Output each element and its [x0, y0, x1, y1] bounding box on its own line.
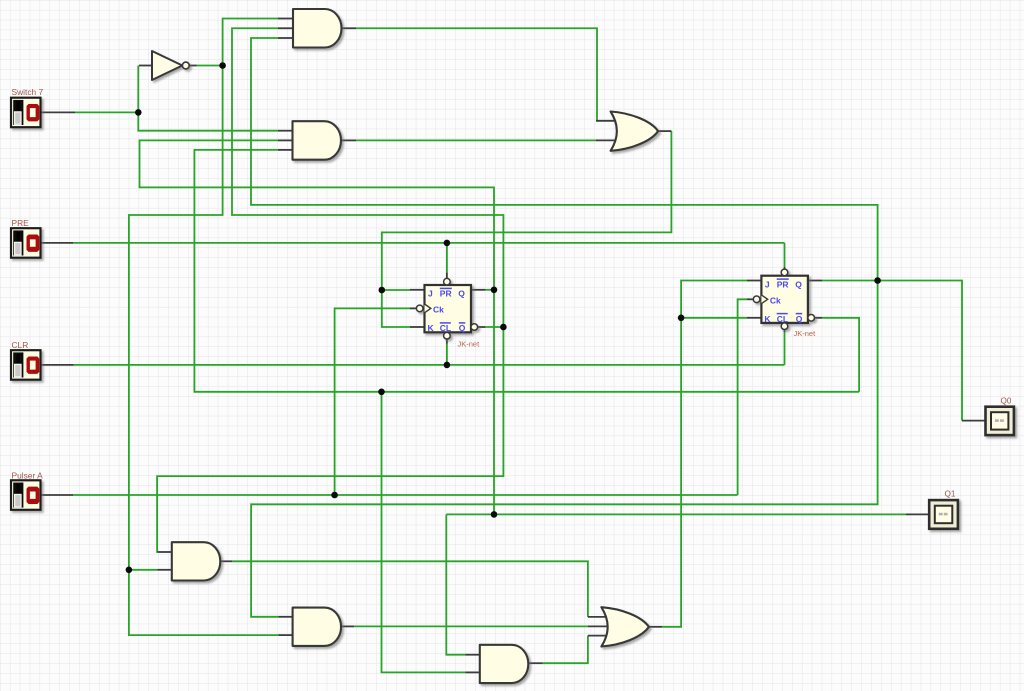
- pin JK1 PR: [446, 273, 448, 279]
- junction Qbar2 bus: [378, 389, 385, 396]
- wire JK2 Q to junction: [822, 280, 878, 282]
- pin PRE out: [41, 242, 74, 244]
- pin JK2 Qbar: [814, 317, 822, 319]
- pin OR2 input3: [588, 635, 608, 637]
- U2 PR overline: [777, 278, 789, 280]
- svg-text:K: K: [764, 314, 771, 324]
- wire JK2 Qbar right and down: [822, 318, 859, 392]
- switch CLR: [11, 350, 41, 380]
- wire OR1 output down and left: [382, 131, 672, 290]
- wire JK2 Qbar bus left: [194, 150, 859, 392]
- pin OR2 output: [649, 626, 662, 628]
- pin Q1 probe: [906, 513, 930, 515]
- U1 Ck bubble: [416, 305, 423, 312]
- pin OR1 input1: [596, 120, 617, 122]
- wire AND3 output to OR2 input1: [232, 561, 588, 617]
- svg-text:JK-net: JK-net: [458, 340, 481, 349]
- pin Q0 probe: [962, 420, 986, 422]
- wire JK2 Q down and left to AND4 input1: [251, 281, 878, 617]
- U2 Qbar overline: [796, 313, 803, 315]
- pulser PulserA: [11, 480, 41, 510]
- pin AND2 input1: [278, 130, 294, 132]
- pin AND3 input1: [157, 551, 172, 553]
- and-gate AND2: [293, 121, 341, 160]
- svg-text:J: J: [428, 289, 433, 299]
- and-gate AND5: [480, 645, 529, 683]
- wire OR2 net to JK2 K: [681, 317, 747, 319]
- inverter gate NOT1: [152, 51, 189, 80]
- U2 Qbar bubble: [808, 315, 815, 322]
- switch PRE: [11, 228, 41, 258]
- pin AND4 input2: [278, 634, 293, 636]
- pin JK1 J: [410, 289, 425, 291]
- and-gate AND1: [293, 9, 342, 48]
- or-gate OR2: [601, 607, 649, 646]
- wire junction up to NOT input: [137, 66, 139, 113]
- junction NOT net at AND3: [126, 567, 133, 574]
- svg-text:Q1: Q1: [945, 490, 956, 499]
- pin OR2 input1: [588, 616, 608, 618]
- wire Pulser bus: [73, 494, 738, 496]
- wire AND4 output to OR2 input2: [354, 625, 588, 627]
- and-gate AND4: [293, 608, 341, 646]
- wire JK1 Qbar up and left to AND1 input2: [232, 28, 503, 327]
- pin JK2 Q: [807, 280, 822, 282]
- svg-text:Ck: Ck: [770, 295, 781, 305]
- svg-text:J: J: [765, 279, 770, 289]
- pin AND2 output: [341, 139, 357, 141]
- pin JK2 K: [747, 317, 761, 319]
- junction JK2 Q: [874, 277, 881, 284]
- wire JK1 Q up and left to AND2 input2: [140, 140, 495, 289]
- junction switch7 net: [135, 109, 142, 116]
- svg-text:Q0: Q0: [1001, 397, 1012, 406]
- U2 clock triangle: [761, 295, 767, 304]
- pin JK1 CL: [446, 339, 448, 344]
- wire NOT net down to AND4 input2: [129, 570, 279, 635]
- U2 Ck bubble: [753, 296, 760, 303]
- svg-text:Q: Q: [458, 289, 465, 299]
- wire OR1 net down to JK1 K: [382, 290, 410, 327]
- pin AND1 input2: [278, 27, 294, 29]
- wire JK2 Q up and left to AND1 input3: [251, 38, 878, 281]
- pin AND5 output: [528, 662, 542, 664]
- junction OR1 net at JK1 J: [379, 287, 386, 294]
- svg-text:CL: CL: [440, 323, 451, 333]
- probe Q1 body: [929, 500, 958, 529]
- U1 CL overline: [440, 322, 451, 324]
- pin OR1 output: [658, 130, 671, 132]
- svg-text:K: K: [428, 323, 435, 333]
- wire JK1 Qbar down to AND3 input1: [157, 327, 503, 552]
- wire PRE bus: [73, 242, 785, 244]
- wire OR1 net to JK1 J: [382, 289, 410, 291]
- svg-text:CL: CL: [777, 314, 788, 324]
- junction PRE at JK1: [444, 240, 451, 247]
- wire AND2 output to OR1 input2: [356, 139, 596, 141]
- wire PRE drop to JK2 PR: [784, 243, 786, 267]
- svg-text:PR: PR: [440, 289, 452, 299]
- U1 clock triangle: [425, 304, 431, 313]
- pin AND1 output: [341, 27, 356, 29]
- pin OR1 input2: [596, 139, 617, 141]
- wire junction down to AND2 input1: [138, 112, 277, 130]
- pin AND5 input1: [466, 654, 481, 656]
- wire JK1 Qbar to junction: [485, 326, 503, 328]
- probe Q0 body: [986, 407, 1014, 435]
- wire JK1 Q to junction: [485, 289, 494, 291]
- pin JK2 CL: [784, 329, 786, 332]
- switch SW7 (Switch 7): [11, 98, 41, 128]
- junction OR2 net at JK2 K: [678, 315, 685, 322]
- wire Switch7 to junction: [75, 111, 138, 113]
- and-gate AND3: [172, 542, 221, 580]
- wire Pulser up to JK2 Ck: [738, 299, 747, 495]
- pin JK1 Ck: [410, 307, 417, 309]
- pin AND2 input3: [278, 149, 294, 151]
- pin CLR out: [41, 364, 74, 366]
- jk-flipflop U1 body: [416, 278, 477, 339]
- svg-text:Q: Q: [459, 323, 466, 333]
- pin JK2 Ck: [747, 298, 754, 300]
- U1 Qbar overline: [459, 322, 466, 324]
- pin NOT input: [139, 65, 153, 67]
- pin JK1 Qbar: [477, 326, 485, 328]
- wire node A down then left at y215: [129, 66, 223, 570]
- junction Pulser at JK1 Ck: [331, 492, 338, 499]
- or-gate OR1: [611, 112, 659, 151]
- wire node A up to AND1 input1: [223, 19, 278, 66]
- pin Pulser out: [41, 494, 73, 496]
- pin Switch7 out: [41, 111, 76, 113]
- wire CLR bus: [74, 364, 785, 366]
- svg-text:Q: Q: [795, 279, 802, 289]
- wire Q1 line down to AND5 input1: [446, 514, 465, 654]
- junction JK1 Q: [491, 287, 498, 294]
- junction JK1 Qbar: [500, 324, 507, 331]
- pin AND3 input2: [157, 569, 172, 571]
- wire Pulser up to JK1 Ck: [335, 308, 410, 495]
- pin AND4 input1: [278, 616, 293, 618]
- wire NOT output to node A: [196, 65, 223, 67]
- svg-text:JK-net: JK-net: [794, 329, 817, 338]
- wire PRE drop to JK1 PR: [446, 243, 448, 273]
- pin AND4 output: [341, 625, 354, 627]
- pin JK2 J: [747, 280, 761, 282]
- wire JK2 Q right to Q0 drop: [878, 281, 962, 421]
- wire JK1 Q down to Q1 line: [493, 290, 495, 515]
- wire AND1 output to OR1 input1: [356, 28, 597, 121]
- svg-text:Ck: Ck: [433, 305, 444, 315]
- pin JK2 PR: [784, 267, 786, 269]
- pin OR2 input2: [588, 625, 608, 627]
- wire JK2 CL to CLR bus: [784, 332, 786, 365]
- U1 Qbar bubble: [471, 324, 478, 331]
- pin AND5 input2: [466, 671, 481, 673]
- junction Q1 line: [491, 511, 498, 518]
- junction CLR at JK1: [444, 362, 451, 369]
- wire JK2 Qbar branch down to AND5 input2: [382, 392, 466, 673]
- pin AND2 input2: [278, 139, 294, 141]
- U1 PR overline: [440, 287, 452, 289]
- svg-text:PRE: PRE: [12, 218, 30, 228]
- pin AND1 input3: [278, 37, 294, 39]
- svg-text:Switch 7: Switch 7: [12, 87, 44, 97]
- U1 PR bubble: [444, 278, 451, 285]
- pin JK1 Q: [471, 289, 486, 291]
- pin NOT output: [189, 65, 197, 67]
- wire JK1 CL to CLR bus: [446, 344, 448, 365]
- pin AND3 output: [219, 560, 232, 562]
- junction NOT output node A: [219, 62, 226, 69]
- jk-flipflop U2 body: [753, 269, 814, 329]
- U1 pin text J: [428, 279, 803, 333]
- svg-text:Pulser A: Pulser A: [12, 470, 44, 480]
- wire OR2 output up to JK2 J: [662, 281, 747, 627]
- wire AND5 output to OR2 input3: [543, 636, 588, 664]
- wire Q1 line to probe: [446, 513, 905, 515]
- U2 CL overline: [777, 313, 788, 315]
- U2 PR bubble: [781, 269, 788, 276]
- pin AND1 input1: [278, 18, 294, 20]
- U1 CL bubble: [444, 332, 451, 339]
- pin JK1 K: [410, 326, 425, 328]
- svg-text:Q: Q: [796, 314, 803, 324]
- svg-text:CLR: CLR: [12, 340, 29, 350]
- wire NOT net branch to AND3 input2: [129, 569, 158, 571]
- U2 CL bubble: [781, 323, 788, 330]
- svg-text:PR: PR: [777, 279, 789, 289]
